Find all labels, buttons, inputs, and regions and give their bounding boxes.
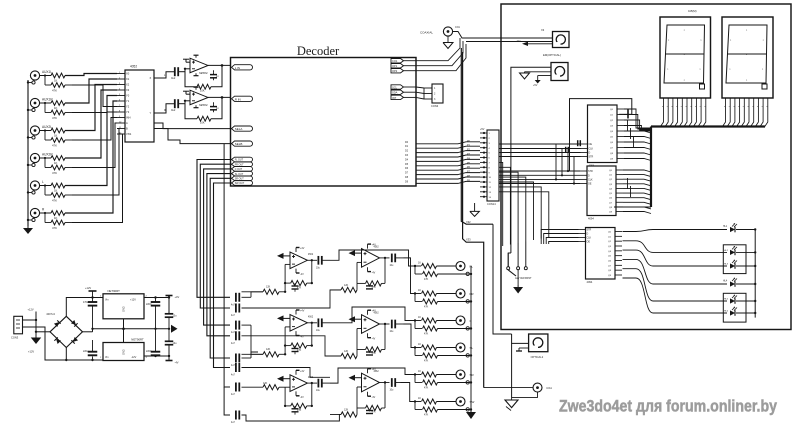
svg-text:A2Y RW-BP2T: A2Y RW-BP2T — [515, 277, 532, 280]
resistor 47K (input R) — [44, 212, 72, 230]
connector AUX1L (RCA input) — [27, 70, 53, 84]
svg-text:Decoder: Decoder — [297, 44, 340, 58]
svg-text:1K: 1K — [418, 343, 421, 346]
svg-text:OE: OE — [589, 143, 593, 146]
connector L (RCA input) — [27, 180, 44, 194]
-4V supply (U8B) — [296, 331, 304, 338]
input resistor 12K (U11B) — [330, 350, 357, 359]
svg-text:NET90RT: NET90RT — [131, 338, 144, 342]
reference arrow (U11C) — [349, 375, 362, 381]
svg-text:CN1: CN1 — [455, 26, 460, 29]
svg-text:1K: 1K — [54, 188, 58, 192]
svg-text:SL: SL — [470, 346, 474, 350]
-4V supply (U8A) — [296, 269, 304, 276]
svg-text:4562: 4562 — [374, 247, 380, 249]
svg-text:D: D — [587, 233, 589, 236]
svg-text:1K: 1K — [418, 289, 421, 292]
resistor 1K (input AUX2R) — [40, 156, 65, 165]
svg-text:10K: 10K — [200, 89, 205, 93]
output capacitor (U11B) — [380, 320, 404, 333]
svg-text:CON3: CON3 — [11, 336, 19, 340]
wire output ground bus — [470, 266, 472, 411]
shunt resistor 47K (FR) — [415, 294, 472, 309]
svg-text:12K: 12K — [344, 409, 349, 412]
op-amp U2B — [178, 87, 208, 108]
svg-text:12K: 12K — [344, 284, 349, 287]
connector R (RCA input) — [27, 208, 45, 222]
svg-text:X3: X3 — [126, 88, 130, 92]
wire 4052 X to op-amp U2A — [162, 72, 175, 78]
svg-text:R IN: R IN — [235, 97, 241, 101]
tag FL OUT (decoder pin) — [232, 157, 253, 162]
output resistor 1K (C) — [414, 316, 456, 323]
op-amp U9A (first stage) — [290, 375, 314, 392]
resistor 1K (input R) — [40, 211, 65, 220]
optical transmitter OPTICAL2 — [529, 334, 548, 359]
svg-text:47K: 47K — [424, 387, 429, 390]
tag R IN (decoder pin) — [232, 96, 253, 101]
tag SELA (decoder pin) — [232, 126, 253, 131]
svg-text:4562: 4562 — [308, 254, 314, 256]
svg-text:OP1: OP1 — [392, 64, 398, 68]
svg-text:1K: 1K — [54, 216, 58, 220]
output resistor 1K (FR) — [414, 289, 456, 296]
LED D1 (standalone) — [653, 224, 755, 233]
ground T (optical2) — [516, 348, 529, 351]
svg-text:47K: 47K — [52, 226, 57, 230]
optical module X4 (receiver 2) — [551, 63, 568, 81]
svg-text:+4V: +4V — [175, 295, 180, 299]
svg-text:+5V: +5V — [533, 84, 538, 87]
output resistor 1K (SL) — [414, 343, 456, 350]
svg-text:12K: 12K — [263, 382, 268, 385]
svg-text:47K: 47K — [52, 144, 57, 148]
svg-text:NET90RT: NET90RT — [108, 289, 121, 293]
tag SR OUT (decoder pin) — [232, 176, 253, 181]
svg-text:-12V: -12V — [131, 356, 137, 359]
wire +5V wrap to U5 VDD — [570, 99, 632, 171]
svg-text:D: D — [588, 174, 590, 177]
svg-text:47K: 47K — [52, 89, 57, 93]
capacitors channel coupling — [231, 293, 239, 424]
feedback resistor 47K (U11C) — [357, 383, 385, 414]
wire control bus CON14 to shift registers — [499, 144, 581, 246]
output capacitor (U8A) — [307, 256, 330, 269]
feedback capacitor (op-amp U2B) — [210, 102, 219, 112]
capacitor C31 (bypass U5b) — [578, 140, 581, 146]
capacitor C25 10u (-) — [165, 329, 177, 345]
svg-text:47K: 47K — [52, 199, 57, 203]
wire bridge to +rail — [66, 296, 103, 316]
input resistor 12K (U8A) — [242, 283, 287, 294]
svg-text:Vin: Vin — [105, 356, 109, 359]
svg-text:OPTICAL2: OPTICAL2 — [531, 355, 544, 359]
display HG1 pins — [662, 98, 706, 108]
LED D4 (standalone) — [653, 278, 755, 287]
ground (coaxial) — [443, 36, 453, 48]
svg-text:12K: 12K — [266, 285, 271, 288]
capacitor C22 2200u (+12V out) — [146, 298, 160, 330]
wire SELB to 4052 B — [154, 129, 232, 144]
svg-text:+12V: +12V — [85, 286, 91, 290]
svg-text:CON3: CON3 — [431, 104, 439, 108]
svg-text:CO1: CO1 — [392, 59, 398, 63]
svg-text:SL OUT: SL OUT — [235, 173, 244, 176]
+4V supply (U8B) — [296, 310, 305, 315]
tag C OUT (decoder pin) — [232, 167, 253, 172]
wire regulator gnd rail — [91, 319, 169, 343]
svg-text:+4V: +4V — [300, 247, 305, 250]
svg-text:+12V: +12V — [28, 350, 34, 354]
reference arrow (U11B) — [349, 316, 362, 322]
capacitor C21 220u — [83, 340, 97, 361]
tag SW OUT (decoder pin) — [232, 181, 253, 186]
svg-text:CON14: CON14 — [487, 202, 496, 206]
feedback resistor 10K (op-amp U2A) — [184, 65, 222, 92]
wire optical passthrough down (X33) — [463, 52, 484, 388]
switch SA1 (mode) — [507, 253, 532, 285]
svg-text:SW: SW — [470, 400, 475, 404]
svg-text:X2: X2 — [126, 83, 130, 87]
svg-text:-4V: -4V — [372, 338, 376, 341]
wire SPDIF outputs to top connectors — [416, 38, 466, 71]
supply +12V tap (psu) — [85, 286, 97, 298]
capacitor C30 (bypass U5) — [566, 147, 569, 153]
svg-text:+12V: +12V — [130, 299, 136, 302]
svg-text:+4V: +4V — [372, 368, 377, 371]
op-amp U11C (second stage) — [362, 371, 380, 392]
wire regulator outputs — [144, 296, 170, 360]
output capacitor (U9A) — [307, 379, 330, 392]
svg-text:4094: 4094 — [588, 217, 594, 221]
analog multiplexer U1 4052 — [117, 65, 162, 143]
capacitor C (input U2A) — [171, 67, 178, 80]
wire 4052 Y to op-amp U2B — [162, 104, 175, 113]
svg-text:47K: 47K — [424, 360, 429, 363]
svg-text:Zwe3do4et для forum.onliner.by: Zwe3do4et для forum.onliner.by — [559, 397, 777, 416]
svg-text:47K: 47K — [424, 414, 429, 417]
ground (input bus) — [23, 226, 33, 234]
voltage regulator VR1 7812 — [100, 289, 148, 319]
input resistor 12K (U9A) — [242, 382, 286, 390]
wire power input - — [23, 327, 104, 360]
output resistor 1K (SW) — [414, 397, 456, 404]
optical module X3 (EM OPTICAL) — [541, 28, 569, 57]
resistor 1K (input L) — [40, 183, 65, 192]
left ground bus wire — [27, 80, 29, 226]
svg-text:CLK: CLK — [589, 148, 594, 151]
svg-text:12K: 12K — [266, 348, 271, 351]
resistor 47K (input AUX1L) — [44, 74, 72, 92]
svg-text:HL4: HL4 — [723, 281, 728, 283]
svg-text:Y2: Y2 — [126, 105, 130, 109]
svg-text:SR OUT: SR OUT — [235, 178, 245, 181]
connector C (RCA output) — [456, 316, 473, 330]
connector CON3 (power in) — [11, 316, 23, 339]
feedback resistor 47K (U9A) — [284, 383, 313, 412]
+5V supply (optical1) — [516, 40, 553, 46]
svg-text:C OUT: C OUT — [235, 168, 243, 171]
svg-text:SELA: SELA — [235, 127, 243, 131]
resistor 1K (input AUX1R) — [40, 101, 65, 110]
svg-text:1K: 1K — [54, 106, 58, 110]
feedback resistor 47K (U11A) — [357, 258, 385, 289]
svg-text:Y0: Y0 — [126, 94, 130, 98]
svg-text:CLK: CLK — [587, 237, 592, 240]
output capacitor (U8B) — [307, 318, 330, 331]
svg-text:+5V: +5V — [516, 40, 521, 43]
+5V supply (optical 2) — [533, 76, 551, 88]
ground (coax out) — [505, 398, 518, 411]
ground (power input) — [31, 337, 42, 344]
wire coaxial to optical module — [453, 32, 553, 42]
connector CON14 — [480, 128, 499, 206]
svg-text:NE5532: NE5532 — [199, 72, 208, 75]
capacitor C20 470u — [83, 298, 98, 332]
svg-text:STR: STR — [587, 229, 592, 232]
connector FL (RCA output) — [456, 262, 473, 276]
+4V supply (U9A) — [296, 370, 305, 375]
resistor 47K (input L) — [44, 184, 72, 202]
+4V supply (U8A) — [296, 247, 305, 252]
-4V supply (U11A) — [368, 267, 376, 274]
capacitor C23 2200u (-12V out) — [146, 329, 160, 356]
svg-text:GND: GND — [123, 349, 126, 355]
connector SW (RCA output) — [456, 397, 475, 411]
svg-text:-4V: -4V — [300, 273, 304, 276]
reference arrow (U9A) — [277, 376, 290, 382]
svg-text:47K: 47K — [52, 171, 57, 175]
resistor 1K (input AUX2L) — [40, 128, 65, 137]
svg-text:COA: COA — [546, 386, 552, 390]
svg-text:4562: 4562 — [308, 317, 314, 319]
supply +4V tap — [166, 295, 180, 299]
svg-text:D: D — [589, 152, 591, 155]
svg-text:AUX1L: AUX1L — [42, 70, 52, 74]
svg-text:+4V: +4V — [372, 310, 377, 313]
op-amp U8B (first stage) — [290, 315, 314, 332]
svg-text:NE5532: NE5532 — [199, 104, 208, 107]
bridge rectifier VD1 4007x4 — [46, 312, 82, 348]
svg-text:FL OUT: FL OUT — [235, 159, 244, 162]
svg-text:0u2: 0u2 — [171, 76, 176, 80]
svg-text:-4V: -4V — [175, 361, 179, 365]
svg-text:0u2: 0u2 — [171, 108, 176, 112]
svg-text:4052: 4052 — [130, 65, 137, 69]
svg-text:1K: 1K — [418, 262, 421, 265]
svg-text:AUX2L: AUX2L — [42, 125, 52, 129]
shunt resistor 47K (C) — [415, 321, 472, 336]
reference arrow (U8B) — [277, 315, 290, 321]
LED group box 1 — [653, 245, 755, 274]
resistor 1K (input AUX1L) — [40, 73, 65, 82]
connector COAXIAL X1 — [420, 26, 460, 36]
wire braid (U5 outputs) — [628, 120, 634, 197]
wire optical2 output down to switch — [511, 67, 551, 253]
tag SL OUT (decoder pin) — [232, 171, 253, 176]
op-amp U8A (first stage) — [290, 252, 314, 269]
capacitor C (input U2B) — [171, 99, 178, 112]
svg-text:COAXIAL: COAXIAL — [420, 30, 433, 34]
svg-text:B: B — [126, 127, 128, 131]
tag SPDIF group (decoder right) — [391, 59, 416, 74]
shunt resistor 47K (FL) — [415, 266, 472, 281]
feedback cap (U11C) — [366, 411, 373, 414]
display board outline box — [501, 4, 791, 330]
svg-text:SDA: SDA — [392, 91, 398, 95]
shift register U6 4094 — [580, 166, 623, 221]
svg-text:A: A — [126, 121, 128, 125]
svg-text:1K: 1K — [54, 78, 58, 82]
wire bundle decoder outputs down — [197, 160, 232, 368]
svg-text:FR OUT: FR OUT — [235, 163, 244, 166]
svg-text:0-B(M): 0-B(M) — [688, 9, 697, 13]
svg-text:SCL: SCL — [392, 85, 398, 89]
shift register U5 4094 — [581, 105, 625, 168]
svg-text:10K: 10K — [200, 121, 205, 125]
shift register U7 4094 — [579, 228, 623, 285]
LED group box 2 — [653, 293, 755, 322]
Decoder main box U10 — [231, 58, 417, 187]
svg-text:X32: X32 — [466, 220, 471, 224]
bypass capacitor (U8B) — [292, 346, 299, 355]
tag X2 group (decoder right) — [391, 85, 416, 100]
svg-text:EM(OPTICAL): EM(OPTICAL) — [543, 53, 561, 57]
svg-text:+12V: +12V — [28, 308, 34, 312]
wire (op-amp U2A output) — [208, 64, 231, 67]
svg-text:Vin: Vin — [105, 299, 109, 302]
ground (switch) — [513, 285, 523, 294]
op-amp U11A (second stage) — [362, 247, 380, 268]
svg-text:L: L — [42, 180, 44, 184]
svg-text:10u: 10u — [173, 315, 178, 318]
svg-text:Y: Y — [150, 111, 152, 115]
svg-text:Y3: Y3 — [126, 110, 130, 114]
7-segment display HG2 — [722, 17, 773, 98]
svg-text:2200: 2200 — [146, 350, 152, 353]
wire SELA to 4052 A — [154, 123, 232, 129]
svg-text:4562: 4562 — [374, 371, 380, 373]
svg-text:4562: 4562 — [374, 313, 380, 315]
input resistor 12K (U8B) — [242, 346, 287, 357]
ground (output bus) — [466, 411, 476, 419]
svg-text:4007x4: 4007x4 — [46, 312, 55, 316]
svg-text:STR: STR — [589, 156, 594, 159]
bypass capacitor (U9A) — [292, 406, 299, 415]
tag SELB (decoder pin) — [232, 141, 253, 146]
svg-text:1K: 1K — [418, 316, 421, 319]
output capacitor (U11A) — [380, 254, 404, 267]
ground (below CON14) — [470, 203, 480, 216]
svg-text:CLK: CLK — [588, 178, 593, 181]
connector FR (RCA output) — [456, 289, 474, 303]
tag L IN (decoder pin) — [232, 65, 253, 70]
svg-text:X33: X33 — [466, 238, 471, 242]
svg-text:VSS: VSS — [126, 132, 131, 136]
wire coax passthrough down (X32) — [461, 48, 493, 224]
output resistor 1K (SR) — [414, 370, 456, 377]
feedback resistor 47K (U8B) — [284, 323, 313, 352]
shunt resistor 47K (SR) — [415, 375, 472, 390]
reference arrow (U11A) — [349, 250, 362, 256]
voltage regulator VR2 7912 — [100, 338, 148, 361]
op-amp U2A — [178, 55, 208, 75]
feedback resistor 47K (U8A) — [284, 260, 313, 289]
svg-text:OE: OE — [588, 183, 592, 186]
svg-text:SW OUT: SW OUT — [235, 182, 245, 185]
label Decoder — [297, 44, 340, 58]
svg-text:STR: STR — [588, 170, 593, 173]
svg-text:-4V: -4V — [372, 272, 376, 275]
svg-text:1K: 1K — [418, 370, 421, 373]
svg-text:470u: 470u — [83, 301, 89, 304]
op-amp U11B (second stage) — [362, 313, 380, 334]
output resistor 1K (FL) — [414, 262, 456, 269]
resistor 47K (input AUX2L) — [44, 129, 72, 147]
input resistor 12K (U11A) — [330, 283, 357, 292]
tag FR OUT (decoder pin) — [232, 162, 253, 167]
feedback cap (U11B) — [366, 352, 373, 355]
feedback capacitor (op-amp U2A) — [210, 70, 219, 80]
reference arrow (U8A) — [277, 253, 290, 259]
svg-text:X: X — [150, 76, 152, 80]
svg-text:HL1: HL1 — [723, 226, 728, 228]
resistor 47K (input AUX2R) — [44, 157, 72, 175]
wire to optical2 — [493, 224, 529, 398]
svg-text:10u: 10u — [173, 342, 178, 345]
wire S-curves IC3 to LEDs — [623, 230, 654, 314]
wire fan (inputs to 4052) — [65, 74, 123, 223]
wire extra channel rows — [224, 144, 230, 415]
-4V supply (U11C) — [368, 392, 376, 399]
svg-text:L IN: L IN — [235, 66, 240, 70]
capacitor C24 10u (+) — [165, 314, 177, 330]
svg-text:SELB: SELB — [235, 142, 243, 146]
svg-text:-4V: -4V — [372, 396, 376, 399]
svg-text:1K: 1K — [54, 133, 58, 137]
svg-text:2200: 2200 — [146, 303, 152, 306]
supply -4V tap — [166, 359, 179, 365]
feedback cap (U11A) — [366, 286, 373, 289]
bypass capacitor (U8A) — [292, 283, 299, 292]
wire (op-amp U2B output) — [208, 96, 231, 99]
wire power input + — [23, 308, 51, 338]
ground (optical 2) — [520, 72, 552, 79]
connector SR (RCA output) — [456, 370, 475, 384]
svg-text:OP2: OP2 — [392, 69, 398, 73]
svg-text:+4V: +4V — [372, 244, 377, 247]
svg-text:X1: X1 — [126, 77, 130, 81]
svg-text:47K: 47K — [424, 278, 429, 281]
shunt resistor 47K (SW) — [415, 402, 472, 417]
svg-text:+4V: +4V — [300, 310, 305, 313]
svg-text:1K: 1K — [418, 397, 421, 400]
connector COA (coax out) — [484, 383, 552, 397]
-4V supply (U11B) — [368, 333, 376, 340]
svg-text:INH: INH — [126, 116, 131, 120]
wire channel interconnects — [242, 250, 416, 421]
ground arrow (psu mid rail) — [171, 325, 178, 333]
-4V supply (U9A) — [296, 391, 304, 398]
connector AUX2R (RCA input) — [27, 153, 54, 167]
svg-text:+5V: +5V — [480, 128, 485, 131]
svg-text:12K: 12K — [344, 350, 349, 353]
svg-text:47K: 47K — [52, 116, 57, 120]
output capacitor (U11C) — [380, 378, 404, 391]
svg-text:OE: OE — [587, 241, 591, 244]
svg-text:-4V: -4V — [300, 396, 304, 399]
feedback resistor 47K (U11B) — [357, 324, 385, 355]
